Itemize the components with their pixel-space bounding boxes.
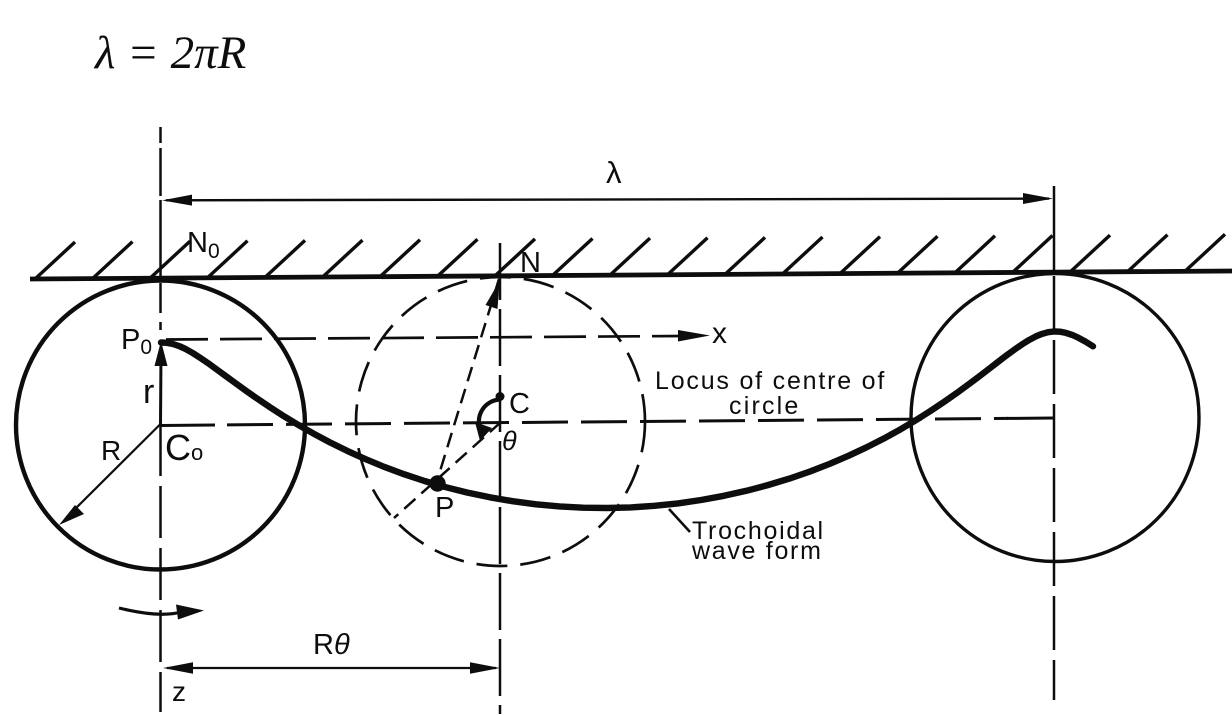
vertical extension line through N / C (x=500) [499, 243, 502, 714]
ground surface line [30, 271, 1232, 279]
trochoidal wave curve [161, 332, 1093, 509]
svg-text:Locus of centre of: Locus of centre of [655, 367, 886, 395]
dashed radius C to P extended to rim [394, 422, 501, 518]
svg-text:λ = 2πR: λ = 2πR [93, 27, 246, 79]
right rolling circle [911, 274, 1199, 562]
ground hatch marks [35, 234, 1225, 279]
leader line to trochoidal wave form label [669, 509, 690, 532]
theta angle arc with arrowhead at C [475, 392, 505, 441]
svg-text:R: R [101, 435, 121, 466]
svg-text:C: C [509, 388, 530, 420]
x axis arrowhead [678, 330, 710, 342]
vertical extension line through N0 / C0 (x=160.5) [159, 127, 162, 712]
svg-text:z: z [172, 676, 186, 707]
svg-text:N: N [520, 247, 541, 279]
svg-text:Rθ: Rθ [313, 629, 350, 661]
R theta dimension arrow [163, 662, 500, 674]
x axis dashed line from P0 [166, 336, 683, 340]
r vector arrow from C0 to P0 [155, 341, 168, 424]
middle rolling circle (dashed) [356, 277, 645, 566]
vertical extension line through right circle (x=1054) [1053, 186, 1056, 700]
svg-text:λ: λ [606, 155, 622, 190]
locus of centre line (dashed horizontal through centres) [161, 424, 215, 428]
dashed chord N to P [437, 279, 499, 481]
svg-text:wave form: wave form [691, 537, 823, 565]
svg-text:θ: θ [502, 426, 517, 456]
svg-text:circle: circle [729, 392, 801, 420]
wavelength dimension arrow lambda [162, 193, 1053, 206]
R radius arrow from C0 to lower-left rim [59, 424, 161, 525]
rotation direction arrow under left circle [119, 605, 204, 620]
svg-text:r: r [143, 373, 154, 411]
svg-text:x: x [712, 317, 727, 350]
point P dot [429, 475, 445, 491]
arrowhead at N on chord [486, 281, 500, 309]
left rolling circle [16, 281, 305, 570]
svg-text:P: P [435, 492, 454, 524]
